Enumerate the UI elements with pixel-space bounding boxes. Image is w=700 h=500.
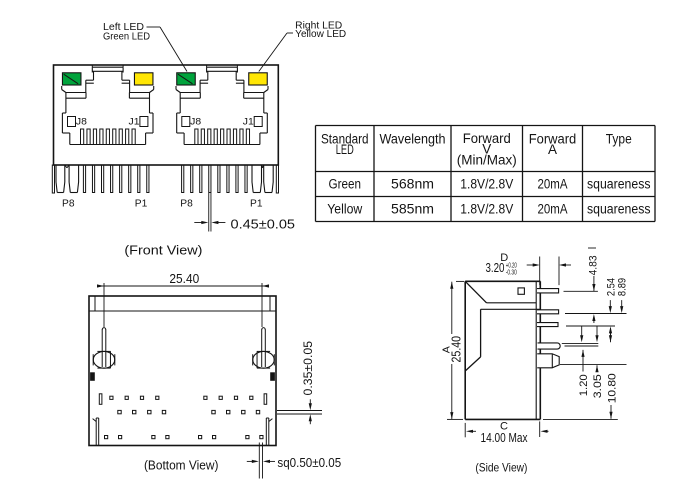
svg-text:P8: P8: [180, 197, 193, 209]
svg-text:25.40: 25.40: [169, 272, 199, 286]
svg-text:J1: J1: [243, 116, 254, 127]
svg-text:20mA: 20mA: [538, 177, 568, 192]
svg-text:10.80: 10.80: [606, 373, 618, 403]
svg-text:squareness: squareness: [587, 177, 651, 192]
svg-text:14.00 Max: 14.00 Max: [481, 431, 529, 445]
svg-text:A: A: [548, 142, 557, 157]
svg-text:Type: Type: [606, 131, 632, 146]
svg-text:20mA: 20mA: [538, 202, 568, 217]
svg-text:2.54: 2.54: [605, 278, 617, 296]
svg-text:568nm: 568nm: [391, 177, 434, 192]
svg-text:4.83: 4.83: [587, 255, 599, 275]
svg-text:LED: LED: [336, 142, 354, 157]
svg-text:(Min/Max): (Min/Max): [457, 152, 517, 167]
svg-text:J8: J8: [190, 116, 201, 127]
svg-text:(Front View): (Front View): [124, 243, 202, 258]
svg-text:squareness: squareness: [587, 202, 651, 217]
svg-text:J8: J8: [76, 116, 87, 127]
svg-text:(Bottom View): (Bottom View): [144, 458, 219, 473]
svg-text:8.89: 8.89: [617, 278, 629, 296]
svg-text:P8: P8: [62, 197, 75, 209]
svg-text:Yellow: Yellow: [327, 202, 362, 217]
svg-text:(Side View): (Side View): [475, 461, 527, 475]
svg-text:585nm: 585nm: [391, 202, 434, 217]
svg-text:sq0.50±0.05: sq0.50±0.05: [277, 456, 341, 470]
svg-text:3.05: 3.05: [592, 374, 604, 398]
svg-text:P1: P1: [135, 197, 148, 209]
svg-text:Yellow LED: Yellow LED: [295, 29, 346, 40]
svg-text:Green: Green: [329, 177, 362, 192]
svg-text:1.8V/2.8V: 1.8V/2.8V: [460, 177, 513, 192]
svg-text:P1: P1: [250, 197, 263, 209]
svg-text:0.45±0.05: 0.45±0.05: [231, 217, 296, 232]
svg-text:0.35±0.05: 0.35±0.05: [303, 341, 315, 396]
svg-text:Green LED: Green LED: [103, 32, 150, 43]
svg-text:1.20: 1.20: [578, 374, 590, 396]
svg-text:25.40: 25.40: [449, 336, 463, 363]
svg-text:1.8V/2.8V: 1.8V/2.8V: [460, 202, 513, 217]
svg-text:J1: J1: [129, 116, 140, 127]
svg-text:Wavelength: Wavelength: [380, 131, 446, 146]
svg-text:3.20: 3.20: [486, 261, 505, 275]
svg-text:-0.30: -0.30: [506, 268, 517, 277]
